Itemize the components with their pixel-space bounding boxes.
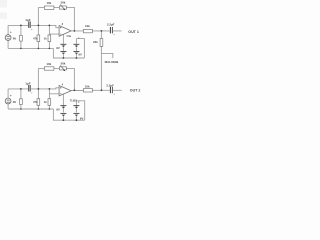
svg-text:9V: 9V: [78, 53, 82, 57]
svg-text:1µF: 1µF: [25, 82, 31, 86]
svg-text:OUT 2: OUT 2: [130, 89, 141, 93]
wire ch2 feedback loop: [38, 68, 74, 90]
node dot j14: [74, 89, 76, 91]
wire R3 branch and inverting input stub: [49, 25, 59, 48]
svg-text:IN: IN: [13, 100, 16, 104]
node dot j6: [20, 48, 22, 50]
wire op-amp U1A power stub: [62, 34, 64, 43]
wire ch1 feedback loop: [38, 7, 74, 31]
op-amp U1A: [59, 24, 72, 38]
resistor R2 47k: [33, 35, 47, 42]
svg-text:9V: 9V: [80, 116, 84, 120]
resistor R11 feedback 10k: [44, 62, 54, 70]
wire ch1 ground rail: [8, 47, 53, 49]
resistor R5 output 10k: [83, 24, 92, 33]
capacitor C4 2.2uF: [106, 84, 114, 95]
input source V1: [5, 35, 11, 41]
node dot j11: [20, 88, 22, 90]
V2 plus mark: [10, 95, 12, 97]
resistor R1: [20, 35, 23, 41]
node dot j3: [49, 25, 51, 27]
wire battery B3 column: [62, 106, 64, 120]
node dot j13: [49, 88, 51, 90]
svg-text:9V: 9V: [56, 107, 60, 111]
node dot j17: [38, 108, 40, 110]
node dot j4: [74, 30, 76, 32]
svg-text:47k: 47k: [33, 100, 38, 104]
wire op-amp U1B power stub: [62, 94, 64, 105]
wire ch2 source verticals: [7, 89, 9, 109]
input source V2: [5, 98, 11, 104]
wire B2 top jog: [76, 39, 84, 58]
svg-text:50k: 50k: [61, 61, 66, 65]
wire ch1 output: [71, 30, 121, 32]
resistor R6 22k: [93, 39, 103, 47]
battery B2 9V: [73, 37, 82, 56]
svg-text:47k: 47k: [33, 36, 38, 40]
wire battery B1 column: [62, 45, 64, 58]
resistor R3: [48, 35, 51, 42]
svg-text:2.2µF: 2.2µF: [106, 84, 114, 88]
svg-text:1µF: 1µF: [25, 18, 31, 22]
svg-text:IN: IN: [13, 37, 16, 41]
wire ch2 input rail: [8, 88, 59, 89]
wire ch1 input rail: [8, 25, 59, 27]
resistor R8: [20, 99, 23, 105]
capacitor C1 1uF: [25, 18, 32, 30]
node dot j16: [20, 108, 22, 110]
svg-text:U1a: U1a: [67, 35, 72, 38]
svg-text:10k: 10k: [46, 62, 51, 66]
wire R10 branch and inverting input stub: [49, 89, 59, 109]
node dot j9: [63, 57, 65, 59]
op-amp U1B: [59, 84, 77, 103]
wire ch1 mid rail jog: [53, 48, 84, 58]
node dot j7: [38, 48, 40, 50]
node dot j10: [76, 57, 78, 59]
node dot j12: [38, 88, 40, 90]
resistor R10: [48, 99, 51, 106]
node dot j20: [76, 119, 78, 121]
svg-text:22k: 22k: [93, 40, 98, 44]
resistor R12 output 10k: [83, 84, 92, 92]
wire ch2 mid rail jog: [53, 109, 84, 120]
capacitor C3 1uF: [25, 82, 32, 94]
battery B4 9V: [73, 101, 83, 120]
svg-text:10k: 10k: [46, 1, 51, 5]
resistor R4 feedback 10k: [44, 1, 54, 9]
wire R9 branch: [37, 68, 39, 109]
node dot j18: [49, 108, 51, 110]
wire R2 branch: [37, 7, 39, 48]
wire battery B2 column: [75, 39, 77, 58]
wire mid label stub: [101, 53, 112, 58]
node dot j19: [63, 119, 65, 121]
wire R8 branch: [20, 89, 22, 109]
node dot j5: [101, 30, 103, 32]
battery B1 9V: [56, 44, 66, 54]
potentiometer P2 50k: [59, 61, 66, 71]
resistor R9 47k: [33, 99, 47, 106]
svg-text:TL062: TL062: [70, 99, 78, 102]
battery B3 9V: [56, 106, 66, 117]
wire ch2 output: [71, 89, 122, 91]
node dot j15: [101, 89, 103, 91]
svg-text:50k: 50k: [61, 0, 66, 4]
svg-text:10k: 10k: [85, 84, 90, 88]
svg-text:OUT 1: OUT 1: [128, 30, 139, 34]
svg-text:9V: 9V: [56, 46, 60, 50]
V1 plus mark: [10, 31, 12, 33]
node dot j8: [49, 48, 51, 50]
node dot j2: [38, 25, 40, 27]
wire B4 top jog: [76, 101, 84, 120]
capacitor C2 2.2uF: [107, 22, 115, 35]
svg-text:2.2µF: 2.2µF: [107, 22, 115, 26]
potentiometer P1 50k: [59, 0, 66, 10]
wire battery B4 column: [75, 101, 77, 120]
node dot j1: [20, 25, 22, 27]
svg-text:10k: 10k: [85, 24, 90, 28]
wire R1 branch: [20, 25, 22, 48]
wire node V to R5: [100, 31, 102, 91]
wire ch2 ground rail: [8, 108, 53, 110]
svg-text:MAL602B: MAL602B: [105, 60, 120, 64]
wire ch1 source verticals: [7, 25, 9, 48]
